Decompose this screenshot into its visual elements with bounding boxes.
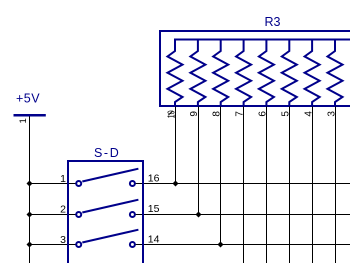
wire: vertical from R3 pin 3 (335, 107, 337, 263)
resistor R3 element pin 7 (236, 40, 251, 107)
resistor R3 element pin 10 (168, 40, 183, 107)
wire: +5V to switch pin 1 (30, 183, 77, 185)
wire: vertical from R3 pin 9 (198, 107, 200, 215)
wire: vertical from R3 pin 7 (243, 107, 245, 263)
svg-text:1: 1 (18, 118, 29, 123)
wire: vertical from R3 pin 10 (175, 107, 177, 184)
junction on +5V rail row 3 (27, 242, 33, 248)
wire: vertical from R3 pin 5 (289, 107, 291, 263)
switch pole 3 left contact (76, 242, 81, 247)
switch pole 3 right contact (130, 242, 135, 247)
switch pole 1 lever (82, 169, 138, 182)
switch pole 2 left contact (76, 212, 81, 217)
slash of zero in pin label 10 (168, 111, 172, 115)
svg-text:3: 3 (60, 234, 66, 246)
wire: +5V to switch pin 2 (30, 214, 77, 216)
wire: +5V to switch pin 3 (30, 244, 77, 246)
switch pole 1 left contact (76, 181, 81, 186)
switch pole 2 right contact (130, 212, 135, 217)
switch pole 1 right contact (130, 181, 135, 186)
junction row 1 with R3 pin 10 (173, 181, 179, 187)
switch pole 2 lever (82, 200, 138, 213)
power +5V bar symbol (14, 114, 46, 117)
wire: switch pin 16 to net row 1 (135, 183, 350, 185)
junction on +5V rail row 2 (27, 212, 33, 218)
bus wire (common pin of R3) (174, 39, 350, 41)
svg-text:R3: R3 (265, 15, 281, 29)
resistor network R3 box (160, 31, 350, 106)
svg-text:+5V: +5V (16, 92, 40, 106)
wire: switch pin 14 to net row 3 (135, 244, 350, 246)
wire: vertical from R3 pin 4 (312, 107, 314, 263)
svg-text:14: 14 (148, 233, 160, 245)
junction row 2 with R3 pin 9 (196, 212, 202, 218)
switch S-D box (68, 161, 143, 263)
wire: +5V vertical rail (29, 117, 31, 263)
resistor R3 element pin 3 (328, 40, 343, 107)
resistor R3 element pin 6 (259, 40, 274, 107)
svg-text:15: 15 (148, 203, 160, 215)
resistor R3 element pin 4 (305, 40, 320, 107)
wire: vertical from R3 pin 6 (266, 107, 268, 263)
svg-text:16: 16 (148, 172, 160, 184)
svg-text:1: 1 (60, 173, 66, 185)
svg-text:S-D: S-D (94, 146, 120, 160)
wire: switch pin 15 to net row 2 (135, 214, 350, 216)
switch pole 3 lever (82, 230, 138, 243)
wire: vertical from R3 pin 8 (220, 107, 222, 245)
junction row 3 with R3 pin 8 (218, 242, 224, 248)
resistor R3 element pin 5 (282, 40, 297, 107)
resistor R3 element pin 8 (213, 40, 228, 107)
resistor R3 element pin 9 (190, 40, 205, 107)
svg-text:2: 2 (60, 204, 66, 216)
junction on +5V rail row 1 (27, 181, 33, 187)
